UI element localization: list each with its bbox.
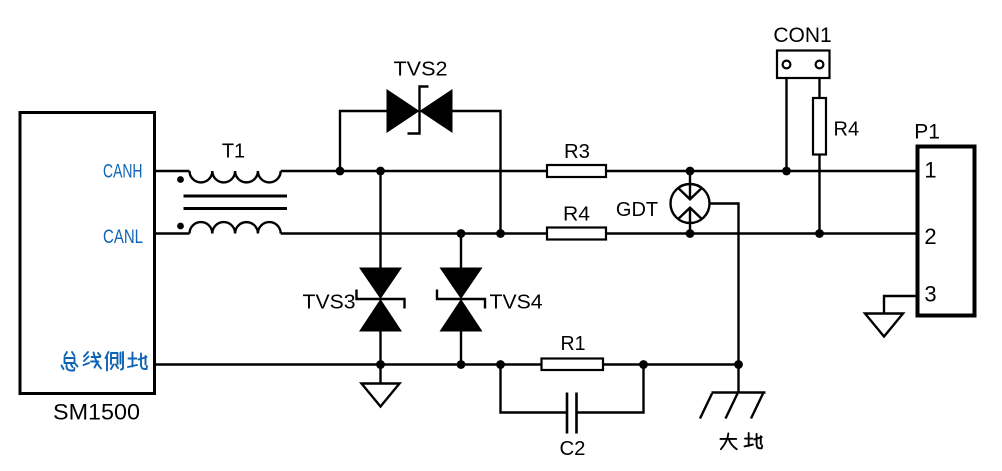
TVS4 upper triangle: [440, 268, 483, 300]
wire GDT bottom to CANL: [689, 223, 691, 234]
junction node CANL / R4: [815, 229, 824, 238]
wire TVS3 bottom branch to ground bus: [379, 331, 381, 384]
wire CANH from R3 to P1 pin1: [606, 170, 916, 172]
junction node R1/C2 left: [496, 360, 505, 369]
wire TVS4 top branch from CANL: [460, 234, 462, 269]
svg-text:CANL: CANL: [103, 227, 143, 248]
GDT bottom electrode: [679, 208, 702, 223]
connector CON1 body: [777, 51, 830, 79]
wire TVS3 top branch from CANH: [379, 171, 381, 268]
wire CON1 pin1 to CANH: [785, 78, 787, 171]
transformer T1 primary winding: [190, 171, 281, 182]
svg-text:GDT: GDT: [616, 199, 658, 221]
junction node CANH / CON1: [782, 167, 791, 176]
svg-text:CANH: CANH: [103, 162, 143, 183]
svg-text:TVS2: TVS2: [394, 59, 448, 81]
svg-text:2: 2: [924, 224, 936, 249]
CON1 pin 1 circle: [783, 61, 791, 69]
wire CANH from T1 to R3: [281, 170, 547, 172]
svg-text:R4: R4: [834, 119, 860, 141]
transformer T1 core lines: [184, 196, 288, 209]
transformer T1 primary phase dot: [177, 176, 184, 183]
svg-text:1: 1: [924, 158, 936, 183]
resistor R3: [547, 165, 606, 177]
junction node CANL / TVS2 right: [496, 229, 505, 238]
wire ground bus from R1 to earth node: [603, 363, 739, 365]
TVS4 lower triangle: [440, 299, 483, 332]
svg-text:TVS4: TVS4: [490, 292, 543, 314]
pin label bus-side ground hanzi ZONG: [62, 352, 78, 371]
junction node CANL / TVS4: [457, 229, 466, 238]
TVS3 center bar: [357, 290, 405, 309]
junction node CANH / TVS3: [376, 167, 385, 176]
wire CANL from R4 to P1 pin2: [606, 232, 916, 234]
junction node CANH / TVS2 left: [336, 167, 345, 176]
wire C2 branch left: [501, 365, 568, 413]
svg-text:C2: C2: [560, 438, 586, 460]
svg-text:CON1: CON1: [773, 24, 831, 47]
wire CANH from SM1500 to T1: [155, 170, 190, 172]
TVS4 center bar: [437, 290, 485, 309]
wire P1 pin3 to ground: [884, 296, 916, 314]
wire CANL from SM1500 to T1: [155, 232, 190, 234]
wire TVS4 bottom branch to ground bus: [460, 331, 462, 365]
wire CANL from T1 to R4: [281, 232, 547, 234]
ground symbol at P1 pin3: [865, 314, 903, 337]
TVS3 lower triangle: [359, 299, 402, 332]
capacitor C2 plates: [567, 393, 577, 434]
junction node earth / ground bus: [734, 360, 743, 369]
TVS2 left diode triangle: [387, 89, 420, 133]
GDT top electrode: [679, 184, 702, 199]
connector P1 body: [918, 147, 975, 316]
wire GDT side electrode to earth: [709, 204, 739, 393]
transformer T1 secondary phase dot: [177, 223, 184, 230]
wire CON1 pin2 to resistor R4 (vertical): [818, 78, 820, 98]
resistor R4 (series CANL): [547, 228, 606, 240]
resistor R4 (vertical): [813, 98, 826, 155]
transformer T1 secondary winding: [190, 222, 281, 233]
junction node CANH / GDT: [686, 167, 695, 176]
pin label bus-side ground hanzi CE: [106, 352, 124, 371]
earth ground symbol: [700, 393, 766, 419]
svg-text:T1: T1: [222, 141, 245, 163]
TVS3 upper triangle: [359, 268, 402, 300]
IC SM1500 box: [20, 113, 155, 394]
svg-text:R4: R4: [563, 204, 590, 226]
gas discharge tube GDT circle: [671, 184, 710, 223]
junction node CANL / GDT: [686, 229, 695, 238]
svg-text:R3: R3: [564, 141, 590, 163]
svg-text:SM1500: SM1500: [53, 400, 140, 425]
svg-text:TVS3: TVS3: [303, 292, 356, 314]
wire C2 branch right: [577, 365, 644, 413]
junction node R1/C2 right: [639, 360, 648, 369]
TVS2 right diode triangle: [420, 89, 453, 133]
wire TVS2 right branch: [453, 111, 501, 234]
junction node ground bus / TVS3: [376, 360, 385, 369]
ground symbol below TVS3: [362, 384, 400, 407]
TVS2 center bar: [408, 87, 429, 134]
pin label bus-side ground hanzi DI: [128, 353, 147, 370]
wire bus-side ground from SM1500 to R1 node: [155, 363, 542, 365]
svg-text:3: 3: [924, 282, 936, 307]
svg-text:P1: P1: [914, 121, 940, 144]
svg-text:R1: R1: [561, 333, 586, 355]
resistor R1: [542, 359, 604, 371]
wire R4 (vertical) to CANL: [818, 155, 820, 234]
earth label hanzi DA: [720, 433, 736, 449]
junction node ground bus / TVS4: [457, 360, 466, 369]
wire GDT top to CANH: [689, 171, 691, 185]
pin label bus-side ground hanzi XIAN: [84, 352, 102, 369]
wire TVS2 left branch: [340, 111, 387, 171]
earth label hanzi DI: [745, 433, 763, 448]
CON1 pin 2 circle: [816, 61, 824, 69]
